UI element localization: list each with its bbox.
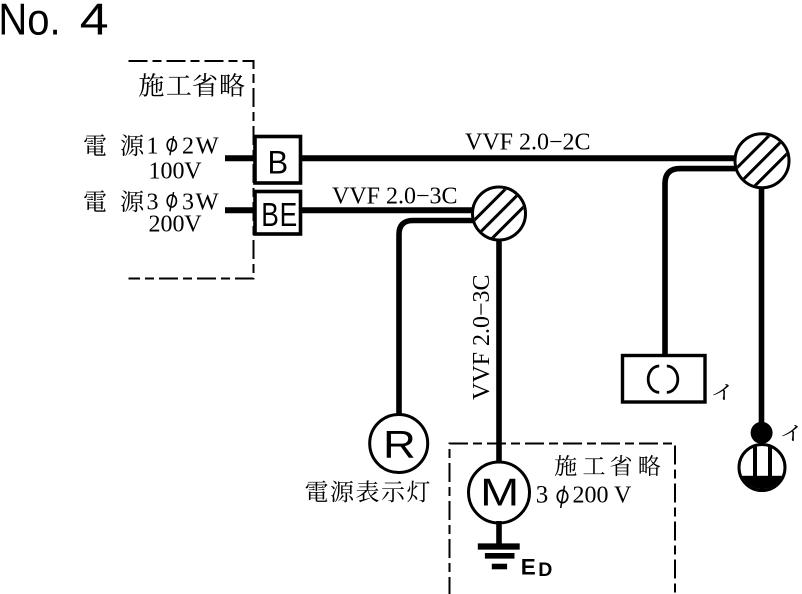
dashed box construction-omitted (lower) xyxy=(450,444,676,594)
svg-text:100: 100 xyxy=(149,158,185,184)
svg-text:VVF 2.0−2C: VVF 2.0−2C xyxy=(465,130,591,156)
svg-text:B: B xyxy=(268,144,289,181)
pilot lamp R xyxy=(370,415,428,473)
svg-text:2: 2 xyxy=(182,134,194,160)
wire left junction down to motor M xyxy=(496,235,502,463)
label イ (pendant) xyxy=(782,425,798,441)
label 電源 3φ3W 200V xyxy=(84,190,106,211)
title No.4 xyxy=(0,0,61,44)
svg-text:V: V xyxy=(184,211,202,237)
svg-text:M: M xyxy=(480,471,519,514)
dashed box construction-omitted (upper, open on left) xyxy=(129,61,254,279)
svg-text:VVF 2.0−3C: VVF 2.0−3C xyxy=(332,184,458,210)
svg-text:4: 4 xyxy=(80,0,109,45)
svg-text:D: D xyxy=(538,559,552,581)
svg-text:3: 3 xyxy=(536,482,549,509)
svg-text:E: E xyxy=(521,554,536,579)
earth-leakage breaker BE xyxy=(255,192,301,235)
wire B to right junction box VVF2.0-2C xyxy=(300,155,737,161)
svg-text:B: B xyxy=(261,197,279,233)
wire source to B xyxy=(225,155,256,161)
switch box with ( ) xyxy=(623,356,706,403)
label 電源表示灯 xyxy=(306,481,328,502)
wire left junction to pilot lamp R xyxy=(399,221,490,417)
wire BE to left junction box VVF2.0-3C xyxy=(300,207,476,213)
svg-text:V: V xyxy=(614,483,632,509)
wire right junction to switch box xyxy=(665,169,750,356)
label 施工省略 (lower) xyxy=(555,455,577,476)
svg-text:1: 1 xyxy=(147,134,159,160)
ground symbol xyxy=(478,521,520,567)
label 電源 1φ2W 100V xyxy=(84,134,106,155)
wire right junction down to pendant xyxy=(759,185,765,424)
svg-text:No.: No. xyxy=(0,0,61,44)
breaker B xyxy=(255,137,301,184)
svg-text:E: E xyxy=(280,197,298,233)
junction box left (hatched circle) xyxy=(460,175,538,253)
ceiling rosette pendant xyxy=(738,422,786,492)
svg-text:W: W xyxy=(196,133,220,160)
label 施工省略 (upper) xyxy=(139,73,164,97)
svg-text:V: V xyxy=(184,158,202,184)
svg-text:VVF 2.0−3C: VVF 2.0−3C xyxy=(469,274,495,400)
svg-text:R: R xyxy=(383,423,416,466)
svg-text:200: 200 xyxy=(149,211,185,237)
label イ (switch) xyxy=(713,384,729,400)
svg-text:200: 200 xyxy=(573,483,609,509)
wire source to BE xyxy=(225,207,256,213)
junction box right (hatched circle) xyxy=(723,122,801,200)
motor M xyxy=(469,462,530,523)
